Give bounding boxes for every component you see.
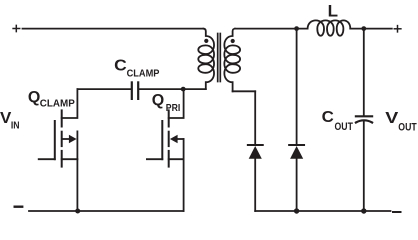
transistor Q2 Q_PRI drain lead [169, 89, 184, 118]
node junction dot bottom rail / Q_CLAMP source [75, 209, 80, 214]
label Q_PRI [152, 92, 181, 114]
transformer T1 primary polarity dot [204, 39, 208, 43]
capacitor C_OUT bottom lead [363, 121, 365, 211]
node VIN+ plus sign [13, 25, 20, 31]
svg-text:PRI: PRI [166, 102, 181, 114]
transistor Q1 Q_CLAMP source lead [62, 158, 78, 160]
svg-text:IN: IN [11, 120, 20, 132]
label VIN [0, 110, 20, 132]
transistor Q1 Q_CLAMP gate lead [39, 158, 55, 160]
node junction dot bottom rail / D2 [294, 208, 299, 213]
diode D2 cathode lead from top rail [296, 29, 298, 144]
wire bottom left rail [29, 210, 184, 212]
diode D2 triangle [290, 146, 303, 159]
node VOUT+ plus sign [394, 26, 401, 32]
label C_OUT [322, 109, 353, 133]
svg-text:Q: Q [152, 92, 164, 109]
node VOUT- minus sign [393, 211, 401, 213]
label C_CLAMP [114, 58, 159, 80]
wire Q_CLAMP drain to C_CLAMP [77, 88, 130, 90]
inductor L coil [308, 20, 351, 35]
transistor Q2 Q_PRI source lead [169, 158, 184, 160]
label Q_CLAMP [28, 89, 75, 110]
transistor Q2 Q_PRI source bar down to rail [183, 139, 185, 211]
svg-text:CLAMP: CLAMP [127, 67, 160, 79]
node junction dot top rail / C_OUT [361, 26, 366, 31]
capacitor C_OUT top lead [363, 29, 365, 116]
transformer T1 secondary polarity dot [231, 39, 235, 43]
svg-text:C: C [114, 58, 127, 75]
diode D1 cathode bar [248, 144, 263, 146]
wire bottom right rail [255, 210, 390, 212]
svg-text:OUT: OUT [398, 122, 417, 134]
transistor Q1 Q_CLAMP body arrow (P-channel, points right) [63, 138, 70, 140]
diode D1 anode/cathode leads [254, 91, 256, 144]
node junction dot top rail / D2 [294, 26, 299, 31]
diode D2 cathode bar [289, 144, 304, 146]
node junction dot bottom rail / C_OUT [361, 208, 366, 213]
capacitor C_CLAMP plates [132, 82, 138, 99]
wire top rail from VIN+ to transformer primary [23, 28, 204, 30]
label V_OUT [385, 110, 417, 134]
wire secondary bottom to D1 [233, 90, 256, 92]
capacitor C_OUT curved bottom plate [356, 120, 372, 122]
node junction dot Q_PRI drain / C_CLAMP / primary [181, 87, 186, 92]
svg-text:CLAMP: CLAMP [40, 97, 75, 109]
transformer T1 primary winding coil [198, 29, 214, 90]
transistor Q1 Q_CLAMP gate bar [54, 121, 56, 159]
transformer T1 secondary winding coil [224, 29, 240, 92]
transformer T1 core lines [218, 34, 221, 82]
transistor Q2 Q_PRI channel dashes [168, 110, 170, 166]
transistor Q2 Q_PRI gate bar [161, 121, 163, 159]
svg-text:L: L [328, 1, 338, 20]
node VIN- minus sign [15, 205, 23, 207]
diode D1 triangle [249, 146, 262, 159]
wire secondary top rail to L [235, 28, 308, 30]
diode D2 anode lead to bottom rail [296, 158, 298, 211]
svg-text:C: C [322, 109, 335, 126]
wire C_CLAMP to Q_PRI drain and primary winding [139, 88, 206, 90]
transistor Q2 Q_PRI gate lead [147, 158, 162, 160]
transistor Q1 Q_CLAMP drain lead [62, 89, 78, 118]
transistor Q1 Q_CLAMP channel dashes [61, 110, 63, 166]
svg-text:OUT: OUT [335, 121, 354, 133]
transistor Q2 Q_PRI body arrow (N-channel, points left) [177, 138, 184, 140]
wire L to VOUT+ [350, 28, 392, 30]
svg-text:V: V [385, 110, 398, 127]
svg-text:Q: Q [28, 89, 40, 106]
capacitor C_OUT top plate [356, 115, 372, 117]
transistor Q1 Q_CLAMP source bar down to rail [76, 131, 78, 211]
svg-text:V: V [0, 110, 12, 127]
